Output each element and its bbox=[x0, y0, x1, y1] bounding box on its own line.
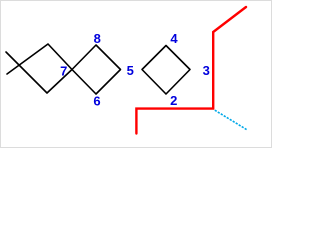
svg-text:8: 8 bbox=[94, 31, 101, 46]
svg-text:7: 7 bbox=[60, 64, 67, 79]
svg-text:5: 5 bbox=[127, 63, 134, 78]
svg-text:6: 6 bbox=[93, 94, 100, 109]
wire chain A upper bbox=[7, 44, 72, 74]
border frame bbox=[1, 1, 272, 148]
wire cyan dashed bbox=[215, 110, 247, 130]
wire red highlighted path bbox=[136, 7, 246, 134]
svg-text:4: 4 bbox=[170, 31, 178, 46]
wire chain B lower bbox=[6, 52, 72, 93]
wire skeleton: left crossing chain segment A bbox=[6, 44, 190, 94]
node diamond D3 bbox=[142, 46, 190, 95]
svg-text:3: 3 bbox=[203, 63, 210, 78]
wire red diagonal bbox=[136, 7, 246, 134]
node diamond D2 bbox=[72, 45, 121, 94]
svg-text:2: 2 bbox=[170, 93, 177, 108]
